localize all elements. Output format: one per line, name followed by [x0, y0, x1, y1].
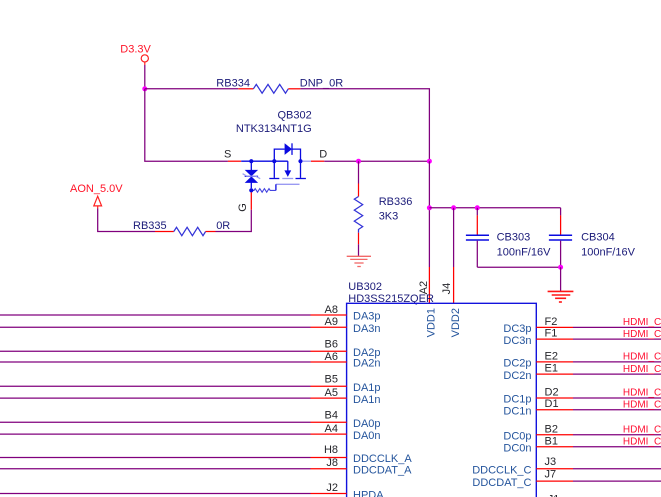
svg-text:J8: J8 [326, 457, 338, 469]
capacitor CB303 [466, 208, 551, 267]
resistor RB334 [216, 77, 343, 93]
transistor QB302 NTK3134NT1G [236, 110, 312, 193]
wire RB336 to ground [358, 244, 360, 256]
svg-text:E1: E1 [545, 363, 558, 375]
svg-text:G: G [237, 203, 249, 212]
svg-text:DA3n: DA3n [353, 323, 381, 335]
zener pair S-G [250, 161, 252, 170]
wire caps bottom [477, 266, 560, 268]
pin A5 DA1n [0, 387, 381, 406]
svg-text:J3: J3 [545, 456, 557, 468]
S rail [241, 160, 288, 162]
pin A6 DA2n [0, 351, 381, 370]
svg-text:DC1n: DC1n [503, 405, 531, 417]
svg-text:A8: A8 [325, 304, 338, 316]
svg-text:HDMI_CON: HDMI_CON [623, 388, 661, 399]
wire RB336 top [358, 161, 360, 183]
svg-text:DA1p: DA1p [353, 382, 381, 394]
svg-text:S: S [224, 148, 231, 160]
pin stub RB335 left [155, 231, 174, 233]
svg-text:HPDA: HPDA [353, 489, 384, 497]
capacitor CB304 [549, 208, 636, 267]
svg-text:J2: J2 [326, 482, 338, 494]
pin B5 DA1p [0, 373, 381, 394]
node J4 tap [451, 205, 456, 210]
svg-text:A5: A5 [325, 387, 338, 399]
pin B2 DC0p HDMI net [503, 424, 661, 443]
svg-text:F1: F1 [545, 328, 558, 340]
resistor RB336 [354, 196, 412, 233]
svg-text:HDMI_CON: HDMI_CON [623, 425, 661, 436]
svg-text:100nF/16V: 100nF/16V [581, 246, 635, 258]
wire G down to RB335 row [250, 210, 252, 232]
svg-text:DA0p: DA0p [353, 418, 381, 430]
svg-text:A6: A6 [325, 351, 338, 363]
svg-text:HDMI_CON: HDMI_CON [623, 437, 661, 448]
D stub of symbol [303, 160, 311, 162]
svg-text:B4: B4 [325, 410, 338, 422]
svg-text:QB302: QB302 [277, 110, 311, 122]
svg-text:VDD2: VDD2 [450, 308, 462, 337]
pin stub RB336 bottom [358, 233, 360, 245]
svg-text:HDMI_CON: HDMI_CON [623, 364, 661, 375]
wire D3.3V down to S row [145, 89, 228, 161]
svg-text:B5: B5 [325, 373, 338, 385]
svg-text:E2: E2 [545, 350, 558, 362]
svg-text:CB303: CB303 [497, 231, 531, 243]
wire RB334 to corner and down to D node [300, 89, 429, 161]
svg-text:100nF/16V: 100nF/16V [497, 246, 551, 258]
node VDD tee [427, 205, 432, 210]
svg-text:DA1n: DA1n [353, 394, 381, 406]
wire RB335 to G column [216, 231, 252, 233]
pin stub A2 [428, 267, 430, 303]
svg-text:RB335: RB335 [133, 220, 167, 232]
svg-text:B2: B2 [545, 424, 558, 436]
node A2 column top [427, 159, 432, 164]
pin H8 DDCCLK_A [0, 444, 412, 465]
pin stub RB335 right [206, 231, 216, 233]
svg-text:D3.3V: D3.3V [120, 43, 151, 55]
svg-text:DC3p: DC3p [503, 323, 531, 335]
power symbol D3.3V [120, 43, 151, 65]
pin A9 DA3n [0, 316, 381, 335]
pin J8 DDCDAT_A [0, 457, 412, 476]
wire top horizontal to RB334 [145, 88, 239, 90]
svg-text:DC1p: DC1p [503, 394, 531, 406]
pin D2 DC1p HDMI net [503, 386, 661, 405]
pin stub D [311, 160, 324, 162]
svg-text:DC2n: DC2n [503, 370, 531, 382]
power symbol AON_5.0V [70, 183, 123, 209]
svg-text:DC0n: DC0n [503, 443, 531, 455]
svg-text:0R: 0R [216, 220, 230, 232]
svg-text:NTK3134NT1G: NTK3134NT1G [236, 123, 312, 135]
svg-text:D1: D1 [545, 398, 559, 410]
pin E1 DC2n HDMI net [503, 363, 661, 382]
svg-text:DDCCLK_A: DDCCLK_A [353, 453, 412, 465]
svg-text:F2: F2 [545, 316, 558, 328]
svg-text:CB304: CB304 [581, 231, 615, 243]
svg-text:DNP_0R: DNP_0R [300, 77, 343, 89]
svg-text:DA0n: DA0n [353, 430, 381, 442]
pin stub J4 [453, 267, 455, 303]
pin A4 DA0n [0, 423, 381, 442]
svg-text:J1: J1 [548, 493, 560, 497]
wire VDD horizontal [429, 207, 560, 209]
svg-text:UB302: UB302 [348, 281, 382, 293]
node RB336 tap [356, 159, 361, 164]
wire A2 column [428, 161, 430, 267]
svg-text:HDMI_CON: HDMI_CON [623, 329, 661, 340]
op IC UB302 HD3SS215ZQER outline [347, 281, 537, 497]
svg-text:HDMI_CON: HDMI_CON [623, 317, 661, 328]
gate bar [276, 183, 300, 185]
svg-text:HDMI_CON: HDMI_CON [623, 352, 661, 363]
svg-text:DA2n: DA2n [353, 358, 381, 370]
pin stub RB334 right [288, 88, 300, 90]
body diode loop [274, 149, 284, 161]
pin E2 DC2p HDMI net [503, 350, 661, 369]
svg-text:B6: B6 [325, 339, 338, 351]
svg-text:RB334: RB334 [216, 77, 250, 89]
pin stub RB334 left [238, 88, 253, 90]
svg-text:J7: J7 [545, 469, 557, 481]
svg-text:DDCCLK_C: DDCCLK_C [472, 465, 531, 477]
wire AON_5.0V down and right [98, 209, 155, 232]
svg-text:HDMI_CON: HDMI_CON [623, 399, 661, 410]
svg-text:B1: B1 [545, 436, 558, 448]
svg-text:VDD1: VDD1 [426, 308, 438, 337]
svg-text:A2: A2 [418, 281, 430, 294]
node junction at D3.3V [142, 86, 147, 91]
wire CB304 to ground [560, 267, 562, 291]
pin D1 DC1n HDMI net [503, 398, 661, 417]
pin J2 HPDA [0, 482, 384, 497]
svg-text:RB336: RB336 [379, 196, 413, 208]
svg-text:3K3: 3K3 [379, 211, 399, 223]
wire D row to A2 corner [324, 160, 429, 162]
svg-text:DC0p: DC0p [503, 431, 531, 443]
pin J7 DDCDAT_C [472, 469, 661, 489]
svg-text:D: D [319, 149, 327, 161]
internal gate resistor squiggle [251, 189, 276, 193]
svg-text:D2: D2 [545, 386, 559, 398]
svg-text:DA3p: DA3p [353, 311, 381, 323]
svg-text:DDCDAT_C: DDCDAT_C [472, 477, 531, 489]
node CB303 tap [475, 205, 480, 210]
wire J4 column [453, 208, 455, 267]
pin F2 DC3p HDMI net [503, 316, 661, 335]
svg-text:A4: A4 [325, 423, 338, 435]
svg-text:A9: A9 [325, 316, 338, 328]
svg-text:J4: J4 [441, 283, 453, 295]
node ground tee [558, 265, 563, 270]
svg-text:AON_5.0V: AON_5.0V [70, 183, 123, 195]
ground (RB336) [347, 256, 371, 266]
pin F1 DC3n HDMI net [503, 328, 661, 347]
pin stub RB336 top [358, 184, 360, 197]
pin stub G [250, 192, 252, 209]
svg-text:DDCDAT_A: DDCDAT_A [353, 465, 412, 477]
pin B6 DA2p [0, 339, 381, 360]
pin B4 DA0p [0, 410, 381, 431]
body arrow [287, 161, 289, 171]
pin B1 DC0n HDMI net [503, 436, 661, 455]
resistor RB335 [133, 220, 230, 236]
svg-text:DC3n: DC3n [503, 335, 531, 347]
pin A8 DA3p [0, 304, 381, 323]
svg-text:DC2p: DC2p [503, 358, 531, 370]
svg-text:H8: H8 [324, 444, 338, 456]
pin J3 DDCCLK_C [472, 456, 661, 477]
pin stub S [228, 160, 241, 162]
wire D3.3V vertical to junction [144, 65, 146, 89]
ground (CB304) [548, 291, 574, 302]
mosfet channel [273, 161, 275, 178]
